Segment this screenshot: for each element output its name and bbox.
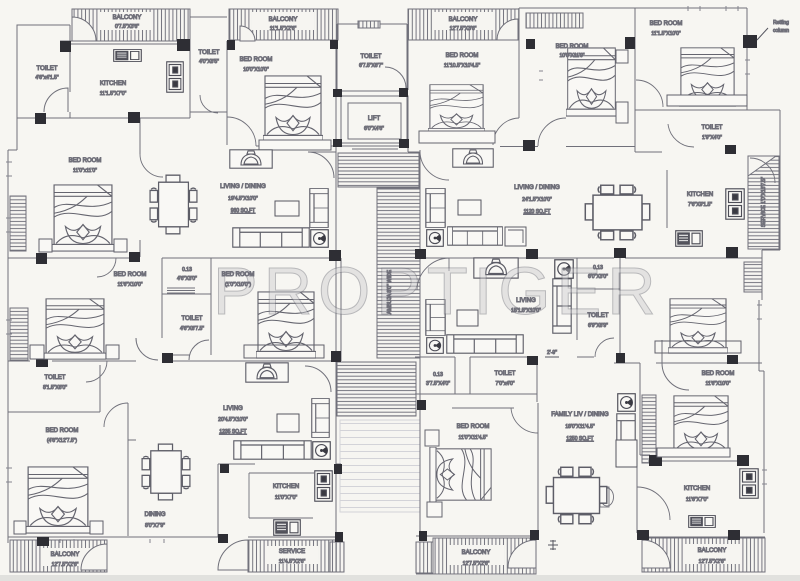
svg-text:TOILET: TOILET bbox=[361, 54, 382, 60]
svg-text:BED ROOM: BED ROOM bbox=[222, 272, 255, 278]
closet C walls bbox=[577, 258, 620, 357]
column kitchen lower-left bbox=[220, 464, 229, 473]
svg-text:BED ROOM: BED ROOM bbox=[556, 44, 589, 50]
column kitchen C top bbox=[649, 455, 662, 466]
svg-text:FAMILY LIV / DINING: FAMILY LIV / DINING bbox=[551, 412, 609, 418]
lift inner box bbox=[348, 103, 401, 139]
svg-text:KITCHEN: KITCHEN bbox=[684, 486, 710, 492]
bed top-middle flat bbox=[263, 76, 323, 142]
balcony top-mid floor line bbox=[229, 8, 338, 10]
kitchen C door arc bbox=[637, 487, 670, 520]
bottom wall right flat bbox=[416, 536, 765, 537]
svg-text:7'6"X9'1.5": 7'6"X9'1.5" bbox=[688, 202, 712, 208]
lift outer box bbox=[341, 96, 408, 143]
fan lower-right top bbox=[555, 260, 573, 278]
sofa lower-left vertical bbox=[312, 399, 329, 438]
stairs right wall bbox=[419, 150, 421, 531]
svg-text:11'10.5"X10'4.5": 11'10.5"X10'4.5" bbox=[444, 63, 480, 69]
wall C left section bbox=[8, 361, 136, 536]
fan lower-right bbox=[427, 338, 444, 354]
svg-text:2'-9": 2'-9" bbox=[547, 350, 557, 356]
toilet C2 walls bbox=[577, 289, 594, 357]
bed center-lower shelf bbox=[244, 345, 324, 358]
wall bedroom B2 right bbox=[634, 8, 636, 110]
kitchen lower-left walls bbox=[218, 464, 341, 537]
toilet top-center door arc bbox=[385, 67, 406, 88]
toilet A door arc bbox=[44, 88, 68, 112]
table upper-left lamp bbox=[230, 150, 272, 168]
kitchen B left wall bbox=[666, 170, 668, 228]
svg-text:TOILET: TOILET bbox=[182, 316, 203, 322]
bedroom C1 right wall bbox=[537, 403, 539, 530]
kitchen B stove bbox=[726, 189, 744, 219]
column wall C row bbox=[36, 357, 48, 367]
wall toilet2 top bbox=[190, 16, 227, 18]
svg-text:6'0"X3'0": 6'0"X3'0" bbox=[588, 274, 608, 280]
svg-text:LIVING: LIVING bbox=[516, 298, 536, 304]
dining table upper-right flat bbox=[585, 185, 649, 240]
svg-text:4'6"X6'7.5": 4'6"X6'7.5" bbox=[180, 326, 204, 332]
svg-text:11'1.5"X10'0": 11'1.5"X10'0" bbox=[651, 31, 681, 37]
left ledge hatch upper bbox=[10, 196, 26, 251]
svg-text:BED ROOM: BED ROOM bbox=[650, 21, 683, 27]
svg-text:Retting: Retting bbox=[773, 20, 789, 26]
fan upper-right bbox=[427, 230, 444, 247]
svg-text:AMBUJA 8'0" WIDE: AMBUJA 8'0" WIDE bbox=[387, 269, 393, 314]
bottom balcony outer center-right bbox=[416, 538, 536, 574]
balcony top-left hatch bbox=[72, 9, 190, 41]
svg-text:24'1.5"X10'0": 24'1.5"X10'0" bbox=[522, 197, 552, 203]
svg-text:11'0"X7'0": 11'0"X7'0" bbox=[275, 495, 298, 501]
kitchen B sink bbox=[676, 231, 703, 247]
svg-text:LIVING / DINING: LIVING / DINING bbox=[514, 185, 560, 191]
svg-text:4'6"X3'0": 4'6"X3'0" bbox=[177, 276, 197, 282]
toilet lower-left door arc bbox=[86, 361, 107, 382]
sofa upper-right horizontal bbox=[448, 227, 503, 245]
svg-text:12'7.5"X3'6": 12'7.5"X3'6" bbox=[450, 26, 477, 32]
sofa lower-right vertical bbox=[426, 300, 445, 336]
wall toilet2 bottom bbox=[190, 111, 227, 113]
bed right-bottom footboard bbox=[657, 448, 730, 457]
kitchen B door arc top bbox=[750, 158, 775, 183]
bed left-lower side tables bbox=[30, 345, 44, 359]
kitchen lower-left counter bbox=[249, 473, 314, 518]
service hatch right edge bbox=[748, 156, 779, 249]
bed left-middle side tables bbox=[39, 239, 52, 252]
svg-text:KITCHEN: KITCHEN bbox=[100, 81, 126, 87]
wash basin family wall bbox=[600, 487, 614, 507]
bedroom A door arc bbox=[140, 154, 163, 177]
toilet B door arc bottom bbox=[668, 124, 694, 147]
svg-text:BALCONY: BALCONY bbox=[449, 17, 478, 23]
svg-text:BED ROOM: BED ROOM bbox=[240, 57, 273, 63]
label service right vertical bbox=[761, 177, 767, 227]
lift bottom landing lines bbox=[341, 146, 408, 149]
svg-text:LIVING / DINING: LIVING / DINING bbox=[220, 184, 266, 190]
svg-text:TOILET: TOILET bbox=[37, 66, 58, 72]
small hatch left of center gap bbox=[330, 542, 344, 572]
small hatch right of center gap bbox=[416, 542, 433, 573]
svg-text:(1'0"X10'0"): (1'0"X10'0") bbox=[225, 282, 251, 288]
kitchen lower-left stove bbox=[315, 471, 332, 501]
wall bedroom topmid left bbox=[226, 41, 228, 145]
svg-text:BALCONY: BALCONY bbox=[462, 550, 491, 556]
bedroom B-mid right wall bbox=[340, 258, 342, 361]
svg-text:TOILET: TOILET bbox=[702, 125, 723, 131]
sofa upper-left horizontal bbox=[233, 228, 309, 247]
svg-text:11'0"X11'4.5": 11'0"X11'4.5" bbox=[459, 435, 488, 441]
balcony bottom-right hatch bbox=[642, 538, 765, 572]
stairs upper landing hatch bbox=[338, 153, 419, 187]
bottom wall left flat bbox=[8, 536, 341, 538]
bed top-right-mid side pads bbox=[616, 50, 628, 63]
svg-text:0'7.5"X3'6": 0'7.5"X3'6" bbox=[115, 24, 139, 30]
svg-text:12'7.5"X2'6": 12'7.5"X2'6" bbox=[463, 561, 490, 567]
fan upper-left bbox=[311, 230, 329, 248]
svg-text:11'6"X10'0": 11'6"X10'0" bbox=[117, 282, 142, 288]
kitchen C top wall bbox=[637, 461, 740, 533]
bed center-lower bbox=[256, 292, 316, 358]
svg-text:6'9"X6'9": 6'9"X6'9" bbox=[588, 323, 608, 329]
family wall x537 bbox=[536, 357, 538, 372]
svg-text:LIFT: LIFT bbox=[368, 116, 381, 122]
fan lower-left bbox=[313, 442, 331, 460]
svg-text:20'4.5"X10'0": 20'4.5"X10'0" bbox=[218, 417, 248, 423]
stairs right flight hatch bbox=[377, 188, 420, 358]
svg-text:10'0"X10'0": 10'0"X10'0" bbox=[243, 67, 269, 73]
table lamp lower-left bbox=[246, 363, 288, 382]
svg-text:18'0"X11'4.5": 18'0"X11'4.5" bbox=[565, 424, 595, 430]
column kitchen bottom left bbox=[35, 113, 46, 124]
column mid wall row bbox=[36, 253, 47, 264]
kitchen lower-left sink bbox=[274, 520, 301, 536]
table lamp lower-right bbox=[474, 258, 518, 278]
svg-text:4'6"x4'1.5": 4'6"x4'1.5" bbox=[35, 75, 58, 81]
toilet A2 door arcs bbox=[136, 338, 209, 360]
svg-text:TOILET: TOILET bbox=[588, 313, 609, 319]
svg-text:SERVICE: SERVICE bbox=[279, 549, 305, 555]
svg-text:11'1.5"X2'6": 11'1.5"X2'6" bbox=[270, 26, 297, 32]
dim mark 2-9 bbox=[545, 356, 559, 358]
center table lower-left bbox=[277, 414, 299, 432]
svg-text:BALCONY: BALCONY bbox=[269, 17, 298, 23]
svg-text:0.13: 0.13 bbox=[593, 265, 603, 271]
bedroom left-lower door arc bbox=[97, 258, 116, 277]
svg-text:BED ROOM: BED ROOM bbox=[46, 428, 79, 434]
bedroom B2 door arc bottom bbox=[538, 118, 566, 146]
svg-text:BALCONY: BALCONY bbox=[113, 15, 142, 21]
wardrobe ladder hatch lower-right bedroom bbox=[642, 395, 656, 463]
center table lower-right bbox=[457, 310, 478, 326]
table upper-right lamp bbox=[453, 149, 493, 167]
closet A2 walls bbox=[162, 258, 211, 294]
balcony top-right floor line bbox=[408, 9, 519, 40]
bedroom B1 left wall bbox=[407, 40, 409, 152]
right wall mid lower windows bbox=[761, 292, 763, 300]
svg-text:3'7.5"X4'0": 3'7.5"X4'0" bbox=[426, 381, 450, 387]
center table upper-right bbox=[458, 200, 481, 215]
svg-text:11'6"X7'0": 11'6"X7'0" bbox=[686, 497, 709, 503]
svg-text:6'7.5"X6'7": 6'7.5"X6'7" bbox=[359, 63, 383, 69]
svg-text:10'0"X11'9": 10'0"X11'9" bbox=[559, 53, 584, 59]
sofa upper-right single bbox=[505, 227, 526, 246]
balcony top-left floor line bbox=[72, 9, 190, 41]
bedroom lower-left door arc bbox=[104, 403, 128, 427]
toilet C1 walls bbox=[415, 357, 537, 408]
outer wall left bbox=[8, 25, 70, 543]
svg-text:TOILET: TOILET bbox=[199, 50, 220, 56]
svg-text:BED ROOM: BED ROOM bbox=[446, 53, 479, 59]
svg-text:11'4.5"X2'6": 11'4.5"X2'6" bbox=[279, 559, 306, 565]
living B door arc top-left bbox=[420, 151, 449, 180]
dining table lower-left flat bbox=[142, 444, 190, 500]
column bedroom B1 bottom bbox=[523, 140, 535, 151]
bed top-right-mid bbox=[566, 48, 617, 116]
wall C mid section bbox=[162, 360, 341, 362]
bed right-lower1 bbox=[668, 299, 728, 353]
outer wall right top bbox=[747, 8, 780, 300]
svg-text:7'0"x4'0": 7'0"x4'0" bbox=[495, 381, 514, 387]
kitchen C stove bbox=[740, 469, 758, 498]
bedroom topmid door arc bbox=[227, 117, 256, 146]
bedroom B1 door arc bbox=[493, 118, 519, 145]
wall bedroom topmid right bbox=[335, 41, 337, 152]
column toilet-center corners bbox=[333, 89, 342, 97]
svg-text:1'9"X4'0": 1'9"X4'0" bbox=[702, 135, 722, 141]
kitchen A sink bbox=[114, 50, 142, 62]
svg-text:1250 SQ.FT: 1250 SQ.FT bbox=[566, 436, 593, 442]
toilet top-center walls bbox=[333, 24, 408, 143]
sofa upper-left vertical bbox=[310, 189, 328, 228]
stairs left wall bbox=[335, 152, 337, 536]
bed left-lower bbox=[44, 299, 106, 359]
bottom balcony outer left bbox=[10, 540, 107, 572]
wall toilet2 left bbox=[189, 17, 191, 118]
svg-text:4'0"X8'5": 4'0"X8'5" bbox=[199, 59, 219, 65]
balcony top-middle hatch bbox=[229, 9, 338, 41]
bottom scan band bbox=[0, 575, 800, 581]
bed far-right footboard bbox=[667, 95, 747, 106]
svg-text:LIVING: LIVING bbox=[223, 406, 243, 412]
svg-text:12'7.5"X2'6": 12'7.5"X2'6" bbox=[699, 559, 726, 565]
toilet2 door arc bbox=[200, 95, 218, 113]
svg-text:KITCHEN: KITCHEN bbox=[273, 484, 299, 490]
bottom service outer bbox=[248, 540, 336, 572]
sofa lower-right single bbox=[553, 279, 571, 333]
wall left flat bedroom right bbox=[139, 118, 141, 257]
wall C right section bbox=[415, 357, 762, 363]
svg-text:11'1.5"X7'0": 11'1.5"X7'0" bbox=[100, 91, 127, 97]
svg-text:12'7.5"X2'6": 12'7.5"X2'6" bbox=[52, 562, 79, 568]
bed top-far-right bbox=[679, 48, 736, 106]
bottom balcony outer right bbox=[642, 538, 765, 572]
wall kitchen left bbox=[69, 25, 71, 118]
svg-text:11'6"X10'0": 11'6"X10'0" bbox=[705, 381, 730, 387]
service hatch bottom-left flat bbox=[218, 540, 336, 572]
center table upper-left bbox=[275, 201, 299, 216]
outer wall top-left section bbox=[60, 41, 190, 44]
bed top-center-right bbox=[428, 85, 485, 134]
bed top-center-right footboard bbox=[419, 131, 495, 143]
column top row bbox=[60, 41, 71, 52]
bed right-bottom bbox=[672, 396, 730, 456]
window hatch strip top-right bedroom bbox=[526, 13, 583, 28]
living A top door arc bbox=[308, 152, 336, 178]
toilet C2 door arc bbox=[595, 338, 614, 357]
dining table upper-left flat bbox=[150, 175, 197, 234]
svg-text:11'0"x11'0": 11'0"x11'0" bbox=[73, 168, 97, 174]
toilet top-center window bbox=[358, 21, 380, 28]
balcony bottom-center-right hatch bbox=[433, 538, 536, 574]
label stairs width vertical bbox=[387, 269, 393, 314]
retiring column arrow bbox=[757, 28, 768, 40]
balcony top-right hatch bbox=[408, 9, 519, 40]
svg-text:BED ROOM: BED ROOM bbox=[702, 371, 735, 377]
svg-text:8'0"X7'9": 8'0"X7'9" bbox=[145, 523, 165, 529]
wall B main mid horizontal bbox=[8, 257, 762, 259]
svg-text:BED ROOM: BED ROOM bbox=[457, 424, 490, 430]
kitchen A stove bbox=[167, 62, 184, 92]
svg-text:KITCHEN: KITCHEN bbox=[687, 192, 713, 198]
cupboard kitchen C left bbox=[616, 440, 637, 467]
dining divider lower-left bbox=[128, 439, 136, 441]
bed right-lower1 shelf bbox=[655, 341, 741, 353]
bedroom C2 left wall bbox=[639, 363, 641, 455]
svg-text:0.13: 0.13 bbox=[182, 267, 192, 273]
svg-text:1235 SQ.FT: 1235 SQ.FT bbox=[219, 429, 246, 435]
svg-text:15'1.5"X10'0": 15'1.5"X10'0" bbox=[511, 308, 541, 314]
top wall right section bbox=[519, 8, 747, 118]
bed bottom-center side table bbox=[425, 430, 439, 446]
bed top-middle footboard bbox=[259, 140, 331, 150]
plus mark bottom right flat bbox=[548, 540, 558, 550]
column retiring note bbox=[565, 146, 567, 148]
bedroom C2 door arc bbox=[662, 340, 689, 390]
wall bedroom B2 bottom bbox=[500, 146, 635, 148]
bed bottom-left side tables bbox=[14, 521, 26, 534]
svg-text:BED ROOM: BED ROOM bbox=[69, 158, 102, 164]
svg-text:19'4.5"X10'0": 19'4.5"X10'0" bbox=[228, 196, 258, 202]
svg-text:TOILET: TOILET bbox=[495, 371, 516, 377]
wall bedroom topmid bottom bbox=[256, 145, 336, 147]
stairs faint lower grid bbox=[340, 420, 420, 512]
dining table lower-right flat bbox=[546, 467, 607, 523]
svg-text:DINING: DINING bbox=[145, 512, 166, 518]
svg-text:0.13: 0.13 bbox=[433, 372, 443, 378]
sofa family vertical cabinet bbox=[617, 414, 635, 466]
column bottom row bbox=[37, 537, 49, 546]
balcony bottom-left hatch bbox=[10, 540, 107, 572]
fan family box bbox=[618, 394, 636, 412]
svg-text:BALCONY: BALCONY bbox=[698, 548, 727, 554]
sofa lower-right horizontal bbox=[447, 335, 523, 353]
svg-text:SERVICE 1'0"X13'7.5": SERVICE 1'0"X13'7.5" bbox=[761, 177, 767, 227]
outer wall right lower bbox=[759, 300, 764, 533]
stairs lower flight hatch bbox=[337, 362, 416, 416]
svg-text:1120 SQ.FT: 1120 SQ.FT bbox=[524, 209, 551, 215]
closet A2 hatchmark bbox=[167, 288, 195, 293]
bedroom B1 bottom opening bbox=[408, 151, 420, 153]
bedroom B-mid door arc bbox=[305, 366, 331, 392]
svg-text:8'1.5"X6'0": 8'1.5"X6'0" bbox=[43, 385, 67, 391]
toilet B walls bbox=[635, 110, 747, 152]
svg-text:BALCONY: BALCONY bbox=[51, 552, 80, 558]
left ledge hatch lower bbox=[10, 308, 28, 360]
svg-text:(4'6"X12'7.5"): (4'6"X12'7.5") bbox=[47, 438, 78, 444]
kitchen C sink bbox=[689, 516, 716, 528]
bed left-middle bbox=[52, 185, 114, 251]
sofa lower-left horizontal bbox=[234, 441, 311, 459]
svg-text:BED ROOM: BED ROOM bbox=[114, 272, 147, 278]
wall y118 left flat bbox=[17, 117, 190, 119]
bed bottom-left bbox=[26, 467, 90, 533]
toilet B door arc left bbox=[636, 80, 663, 107]
bedroom C1 door arc bbox=[511, 408, 538, 433]
bed bottom-center rotated bbox=[430, 447, 491, 502]
svg-text:6'0"X4'6": 6'0"X4'6" bbox=[364, 126, 384, 132]
svg-text:column: column bbox=[773, 28, 789, 34]
svg-text:TOILET: TOILET bbox=[45, 375, 66, 381]
living C door arc bbox=[417, 258, 449, 290]
sofa upper-right vertical bbox=[426, 189, 445, 228]
small right ledge hatch bbox=[744, 262, 762, 292]
bedroom C2 fan cabinet wall bbox=[640, 454, 650, 456]
svg-text:960 SQ.FT: 960 SQ.FT bbox=[231, 208, 255, 214]
toilet A2 walls bbox=[162, 294, 211, 355]
